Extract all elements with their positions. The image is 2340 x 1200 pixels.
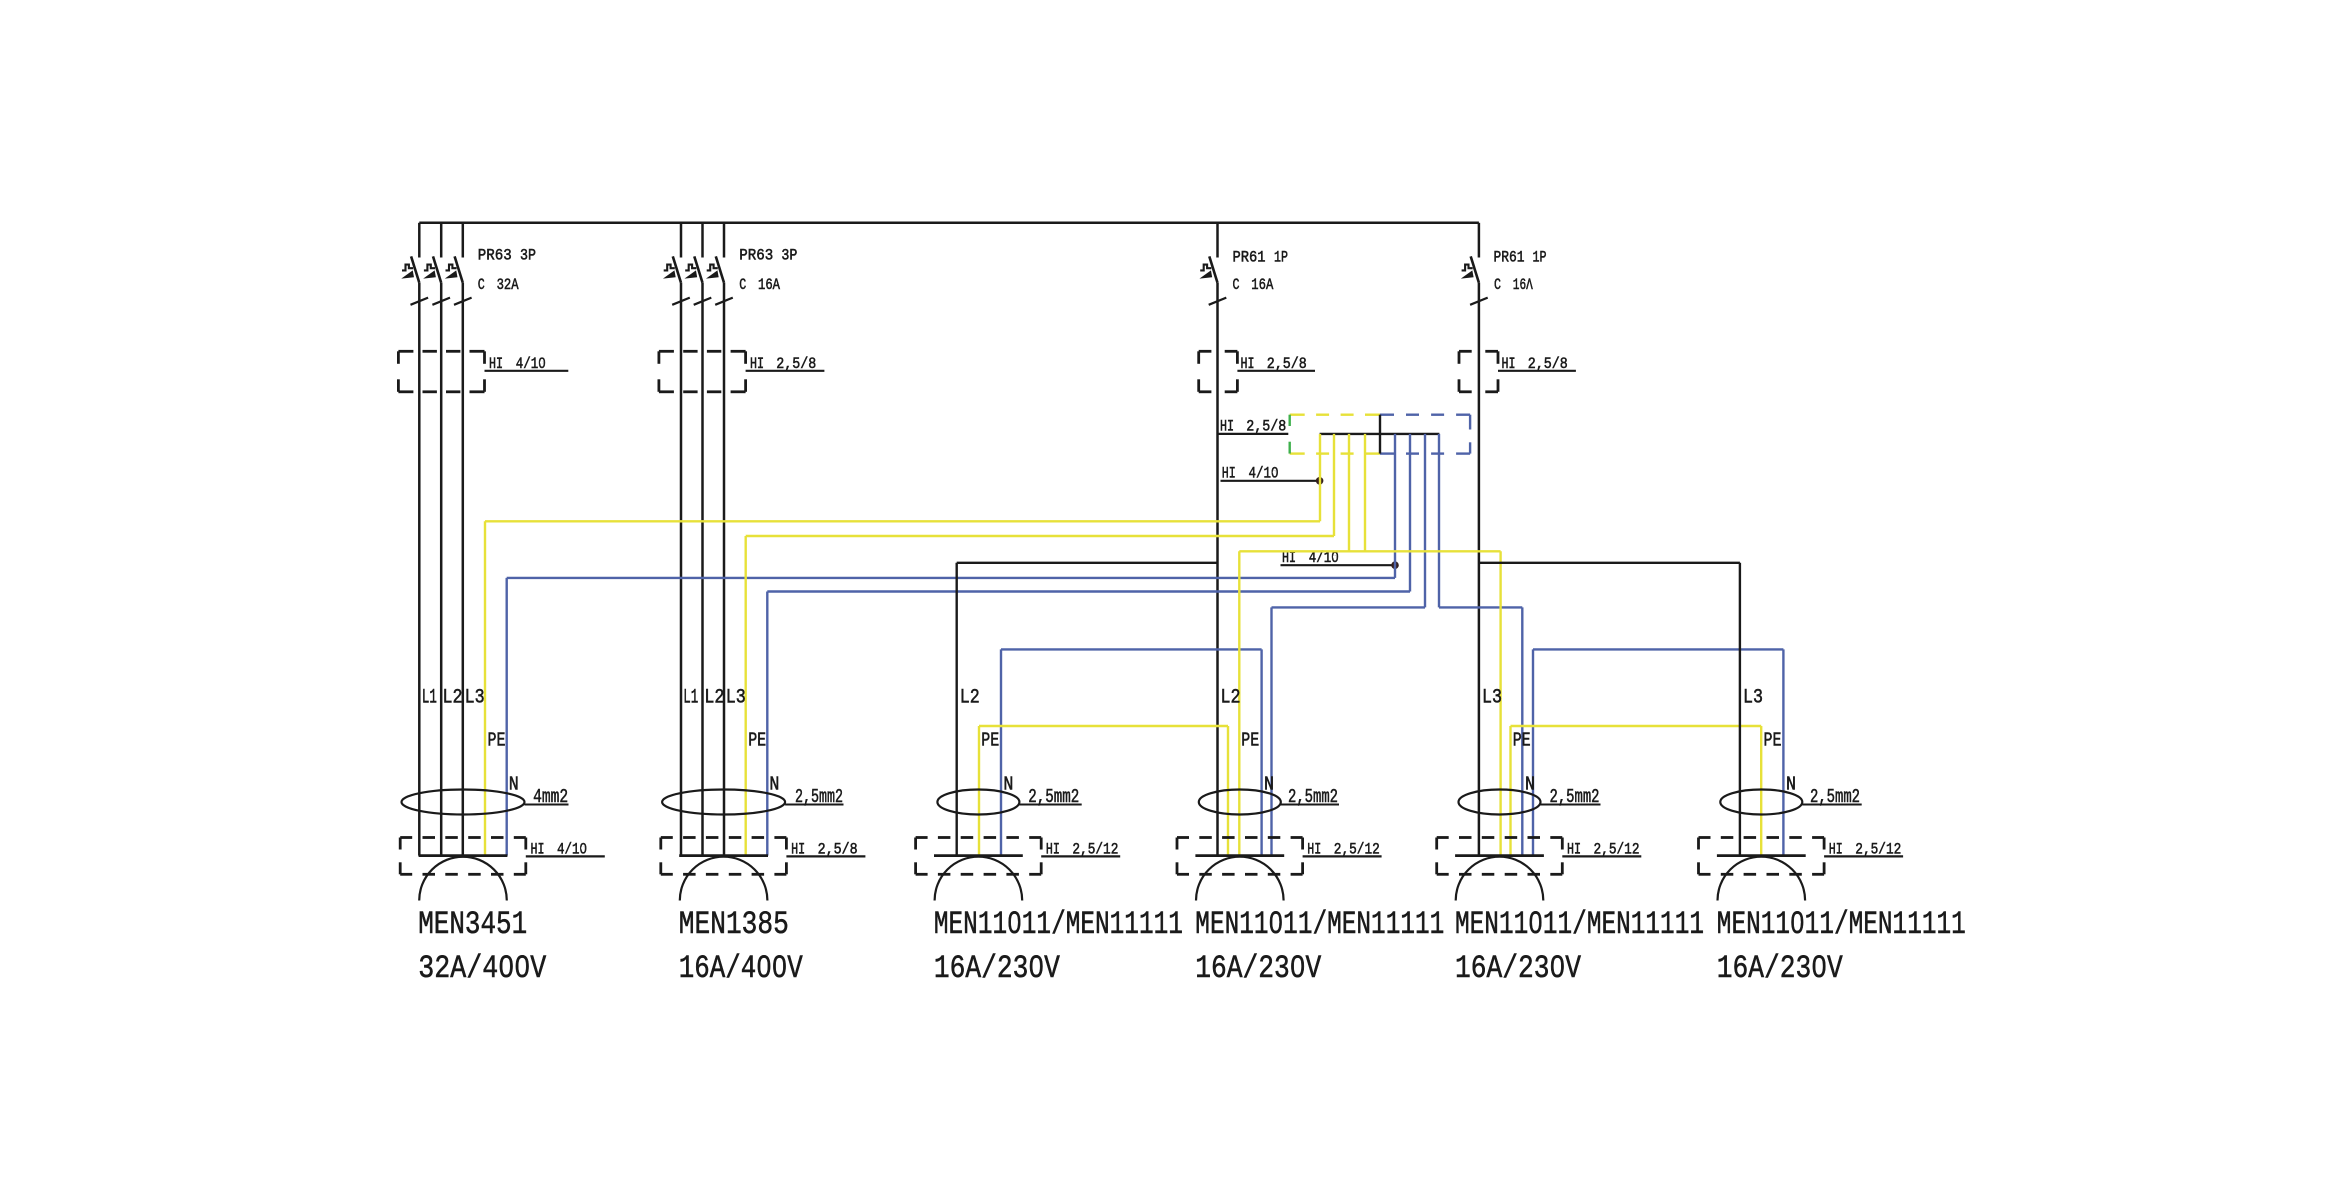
svg-text:L1: L1 (422, 687, 437, 710)
svg-text:PE: PE (748, 730, 766, 752)
label HI 4/10 socket1 (526, 840, 605, 858)
svg-text:N: N (769, 774, 779, 796)
label PE socket1 (488, 730, 506, 752)
svg-text:1P: 1P (1533, 249, 1547, 267)
label L2 socket3 (960, 687, 980, 710)
socket outlet symbol socket1 (419, 856, 508, 901)
cable marker ellipse socket2 (662, 790, 785, 815)
label N socket5 (1525, 774, 1535, 796)
label MEN1385 socket2 (679, 906, 789, 943)
label HI 4/10 with leader (lower) (1281, 549, 1396, 567)
label MEN11011/MEN11111 socket3 (934, 906, 1183, 943)
socket outlet symbol socket3 (934, 856, 1023, 901)
label N socket2 (769, 774, 779, 796)
label PR63 3P (breaker 1) (478, 247, 536, 265)
svg-text:L3: L3 (1743, 687, 1763, 710)
svg-text:L2: L2 (443, 687, 463, 710)
label HI 2,5/8 (breaker 4) (1498, 355, 1576, 373)
label L3 socket6 (1743, 687, 1763, 710)
label HI 2,5/12 socket4 (1303, 840, 1382, 858)
label HI 2,5/12 socket5 (1562, 840, 1641, 858)
label PR61 1P (breaker 3) (1233, 249, 1289, 267)
bus bar wire (top feeder) (419, 222, 1479, 225)
wire N socket4 (blue) (1272, 434, 1426, 856)
svg-text:PR63: PR63 (478, 247, 512, 265)
junction box left edge dash (green PE) (1288, 415, 1290, 454)
label 4mm2 socket1 (533, 786, 568, 808)
svg-text:4mm2: 4mm2 (533, 786, 568, 808)
svg-text:PE: PE (488, 730, 506, 752)
label 32A/400V socket1 (418, 950, 547, 987)
cable marker ellipse socket3 (937, 790, 1019, 815)
terminal strip dashed box socket1 (400, 838, 526, 875)
svg-text:C: C (739, 276, 746, 294)
svg-text:L2: L2 (704, 687, 724, 710)
wire L3 feeder to socket6 (black) (1479, 563, 1740, 856)
svg-text:3P: 3P (781, 247, 797, 265)
label L1 socket2 (683, 687, 698, 710)
label 16A/400V socket2 (679, 950, 804, 987)
label HI 4/10 (breaker 1) (485, 355, 569, 373)
wire PE socket1 (yellow) (485, 434, 1320, 856)
wire PE chain socket5 to socket6 (yellow) (1511, 726, 1762, 856)
label L2 socket2 (704, 687, 724, 710)
svg-text:2,5mm2: 2,5mm2 (1028, 786, 1079, 808)
svg-text:MEN11011/MEN11111: MEN11011/MEN11111 (1455, 906, 1704, 943)
svg-text:16A/230V: 16A/230V (1195, 950, 1322, 987)
label N socket1 (509, 774, 519, 796)
svg-text:2,5/8: 2,5/8 (1246, 417, 1286, 435)
junction box black divider wire (1379, 415, 1381, 454)
cable size leader socket5 (1541, 804, 1601, 806)
socket outlet symbol socket4 (1195, 856, 1284, 901)
wire N chain socket5 to socket6 (blue) (1533, 649, 1783, 855)
label PR63 3P (breaker 2) (739, 247, 797, 265)
label 16A/230V socket6 (1717, 950, 1844, 987)
label PE socket6 (1764, 730, 1782, 752)
label N socket4 (1264, 774, 1274, 796)
svg-text:HI: HI (1220, 417, 1234, 435)
circuit breaker PR63 3P C 32A pole L1 (402, 223, 428, 856)
terminal strip HI 2,5/8 (breaker 3) dashed box (1199, 351, 1238, 392)
terminal strip dashed box socket5 (1437, 838, 1563, 875)
svg-text:16A: 16A (1251, 276, 1273, 294)
svg-text:16A/230V: 16A/230V (934, 950, 1061, 987)
svg-text:32A/400V: 32A/400V (418, 950, 547, 987)
label C 16A (breaker 2) (739, 276, 780, 294)
label 2,5mm2 socket4 (1288, 786, 1338, 808)
terminal strip dashed box socket3 (916, 838, 1042, 875)
label N socket3 (1003, 774, 1013, 796)
cable size leader socket1 (525, 804, 569, 806)
wire N socket2 (blue) (767, 434, 1410, 856)
label L3 socket2 (726, 687, 746, 710)
label PE socket2 (748, 730, 766, 752)
wire PE chain socket4 to socket3 (yellow) (979, 726, 1228, 856)
svg-text:MEN11011/MEN11111: MEN11011/MEN11111 (1717, 906, 1966, 943)
junction box black bus wire (1320, 433, 1440, 435)
svg-text:PE: PE (1513, 730, 1531, 752)
label L2 socket1 (443, 687, 463, 710)
label PE socket3 (981, 730, 999, 752)
label 2,5mm2 socket5 (1550, 786, 1600, 808)
label 16A/230V socket3 (934, 950, 1061, 987)
wire PE socket4 (yellow) (1239, 434, 1500, 856)
terminal strip HI 2,5/8 (breaker 2) dashed box (659, 351, 746, 392)
svg-text:16Λ: 16Λ (1513, 276, 1533, 294)
svg-text:2,5mm2: 2,5mm2 (1810, 786, 1860, 808)
label 2,5mm2 socket2 (795, 786, 843, 808)
circuit breaker PR63 3P C 16A pole L1 (664, 223, 690, 856)
cable marker ellipse socket6 (1720, 790, 1802, 815)
socket outlet symbol socket2 (679, 856, 768, 901)
cable marker ellipse socket5 (1459, 790, 1541, 815)
svg-text:L3: L3 (726, 687, 746, 710)
socket outlet symbol socket6 (1717, 856, 1806, 901)
label L3 socket1 (465, 687, 485, 710)
junction box right edge dashes (blue N) (1469, 415, 1471, 454)
label HI 2,5/12 socket3 (1041, 840, 1120, 858)
svg-text:L1: L1 (683, 687, 698, 710)
label MEN11011/MEN11111 socket6 (1717, 906, 1966, 943)
svg-text:16A/230V: 16A/230V (1717, 950, 1844, 987)
svg-text:MEN3451: MEN3451 (418, 906, 527, 943)
circuit breaker PR63 3P C 16A pole L2 (685, 223, 711, 856)
wire N chain socket4 to socket3 (blue) (1001, 649, 1262, 855)
wire N socket1 (blue) (507, 434, 1395, 856)
svg-text:MEN11011/MEN11111: MEN11011/MEN11111 (934, 906, 1183, 943)
svg-text:L3: L3 (1482, 687, 1502, 710)
junction box dashed outline (PE yellow / N blue) (1290, 415, 1470, 454)
label HI 4/10 with leader (upper) (1221, 465, 1320, 483)
svg-text:MEN11011/MEN11111: MEN11011/MEN11111 (1195, 906, 1444, 943)
label HI 2,5/8 socket2 (786, 840, 865, 858)
label C 16A (breaker 4) (1494, 276, 1533, 294)
svg-text:2,5mm2: 2,5mm2 (795, 786, 843, 808)
svg-text:L2: L2 (1221, 687, 1241, 710)
label PE socket5 (1513, 730, 1531, 752)
label 2,5mm2 socket3 (1028, 786, 1079, 808)
label C 16A (breaker 3) (1233, 276, 1274, 294)
label 16A/230V socket5 (1455, 950, 1582, 987)
circuit breaker PR63 3P C 16A pole L3 (707, 223, 733, 856)
cable size leader socket3 (1019, 804, 1081, 806)
svg-text:2,5mm2: 2,5mm2 (1288, 786, 1338, 808)
cable size leader socket4 (1281, 804, 1339, 806)
circuit breaker PR61 1P C 16A pole (breaker 3) (1200, 223, 1226, 856)
terminal strip dashed box socket2 (661, 838, 787, 875)
label 2,5mm2 socket6 (1810, 786, 1860, 808)
svg-text:32A: 32A (497, 276, 519, 294)
wire N socket5 (blue) (1439, 434, 1522, 856)
cable size leader socket2 (785, 804, 843, 806)
svg-text:N: N (509, 774, 519, 796)
label N socket6 (1786, 774, 1796, 796)
circuit breaker PR63 3P C 32A pole L2 (424, 223, 450, 856)
svg-text:16A/400V: 16A/400V (679, 950, 804, 987)
svg-text:PE: PE (981, 730, 999, 752)
label PE socket4 (1241, 730, 1259, 752)
label HI 2,5/8 (junction box) (1217, 417, 1289, 435)
label MEN3451 socket1 (418, 906, 527, 943)
label L1 socket1 (422, 687, 437, 710)
label 16A/230V socket4 (1195, 950, 1322, 987)
label HI 2,5/8 (breaker 2) (746, 355, 825, 373)
label HI 2,5/12 socket6 (1824, 840, 1903, 858)
cable marker ellipse socket4 (1199, 790, 1281, 815)
svg-text:PR61: PR61 (1233, 249, 1266, 267)
svg-text:PR63: PR63 (739, 247, 773, 265)
terminal strip dashed box socket4 (1177, 838, 1303, 875)
svg-text:C: C (478, 276, 485, 294)
label MEN11011/MEN11111 socket5 (1455, 906, 1704, 943)
label MEN11011/MEN11111 socket4 (1195, 906, 1444, 943)
junction dot on PE wire (1316, 477, 1324, 485)
svg-text:16A/230V: 16A/230V (1455, 950, 1582, 987)
svg-text:C: C (1233, 276, 1240, 294)
wire PE socket2 (yellow) (746, 434, 1334, 856)
socket outlet symbol socket5 (1455, 856, 1544, 901)
junction dot on N wire (1391, 561, 1399, 569)
label PR61 1P (breaker 4) (1494, 249, 1547, 267)
wire L2 feeder to socket3 (black) (957, 563, 1218, 856)
svg-text:1P: 1P (1274, 249, 1288, 267)
svg-text:C: C (1494, 276, 1501, 294)
label L2 socket4 (1221, 687, 1241, 710)
svg-text:PE: PE (1764, 730, 1782, 752)
cable size leader socket6 (1802, 804, 1861, 806)
svg-text:16A: 16A (758, 276, 780, 294)
label L3 socket5 (1482, 687, 1502, 710)
svg-text:PR61: PR61 (1494, 249, 1525, 267)
svg-text:3P: 3P (520, 247, 536, 265)
cable marker ellipse socket1 (402, 790, 525, 815)
svg-text:MEN1385: MEN1385 (679, 906, 789, 943)
svg-text:2,5mm2: 2,5mm2 (1550, 786, 1600, 808)
wire PE socket5 (yellow) (1365, 434, 1501, 856)
svg-text:L3: L3 (465, 687, 485, 710)
terminal strip HI 2,5/8 (breaker 4) dashed box (1459, 351, 1498, 392)
svg-text:PE: PE (1241, 730, 1259, 752)
terminal strip dashed box socket6 (1699, 838, 1825, 875)
circuit breaker PR61 1P C 16A pole (breaker 4) (1462, 223, 1488, 856)
circuit breaker PR63 3P C 32A pole L3 (446, 223, 472, 856)
label C 32A (breaker 1) (478, 276, 519, 294)
svg-text:L2: L2 (960, 687, 980, 710)
label HI 2,5/8 (breaker 3) (1237, 355, 1315, 373)
terminal strip HI 4/10 (breaker 1) dashed box (398, 351, 484, 392)
